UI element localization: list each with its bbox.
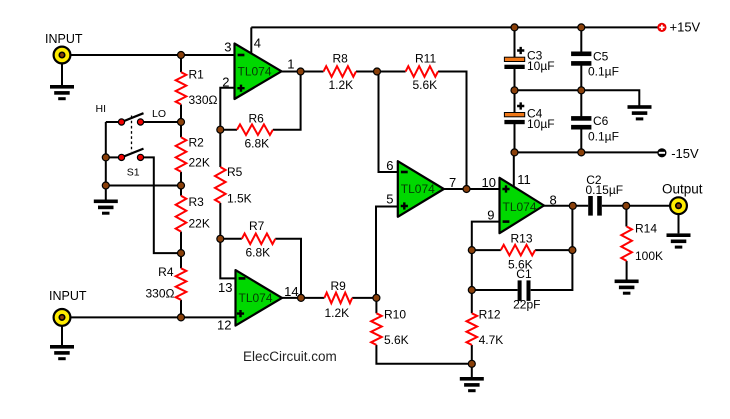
svg-text:TL074: TL074	[239, 291, 273, 305]
node pin14	[298, 294, 305, 301]
node R2/R3/switch	[178, 182, 185, 189]
wire pin4 stub	[250, 27, 252, 53]
capacitor C3 electrolytic	[504, 57, 524, 61]
capacitor C2	[588, 196, 593, 216]
svg-text:5.6K: 5.6K	[384, 333, 409, 347]
input connector 1	[54, 47, 71, 64]
resistor R8	[324, 66, 357, 77]
svg-text:R1: R1	[189, 68, 205, 82]
svg-text:6.8K: 6.8K	[245, 137, 270, 151]
svg-text:22K: 22K	[189, 155, 210, 169]
output connector	[670, 197, 687, 214]
resistor R2	[176, 137, 187, 172]
wire R8 to R11	[356, 71, 406, 73]
wire output connector to ground	[678, 206, 680, 234]
node C2/R14	[623, 202, 630, 209]
wire -15V rail	[515, 151, 659, 153]
wire pole2 contact down to R3R4 node	[143, 157, 181, 253]
resistor R4	[176, 268, 187, 300]
U3 plus	[237, 310, 244, 317]
op-amp U3 TL074 pins 12,13,14	[236, 270, 283, 326]
wire top input to pin 3	[62, 54, 235, 56]
svg-text:R3: R3	[189, 195, 205, 209]
svg-text:C6: C6	[593, 114, 609, 128]
switch S1 gang link (dashed)	[131, 116, 133, 153]
wire pin13 lead	[220, 239, 235, 279]
node R10/R12 ground	[468, 360, 475, 367]
svg-text:R11: R11	[415, 52, 436, 66]
svg-text:C1: C1	[516, 267, 532, 281]
node mid rail / C5 C6	[578, 87, 585, 94]
U4 plus	[502, 185, 509, 192]
node R4/input2	[178, 314, 185, 321]
C3 plus sign	[517, 47, 524, 54]
wire pin11 stub	[513, 152, 515, 189]
node switch pole2	[102, 154, 109, 161]
wire R9 to node R10	[352, 297, 376, 299]
capacitor C1	[518, 280, 522, 301]
resistor R13	[501, 245, 535, 256]
svg-text:11: 11	[517, 172, 531, 187]
svg-text:0.15µF: 0.15µF	[586, 183, 624, 197]
svg-text:10µF: 10µF	[527, 117, 555, 131]
svg-text:1: 1	[287, 57, 294, 72]
wire R12 bottom lead	[471, 345, 473, 364]
svg-text:ElecCircuit.com: ElecCircuit.com	[243, 349, 337, 364]
svg-text:R14: R14	[635, 222, 657, 236]
wire C1 right up to node 8	[531, 206, 573, 290]
switch S1 pole 2 lever	[122, 149, 144, 158]
svg-text:R9: R9	[331, 279, 347, 293]
resistor R10	[371, 313, 382, 345]
capacitor C4 electrolytic	[504, 113, 524, 117]
svg-text:R13: R13	[511, 232, 533, 246]
svg-text:R10: R10	[384, 308, 406, 322]
ground R10 R12	[460, 377, 484, 392]
switch S1 pole 1 contact right (LO)	[137, 119, 143, 125]
wire R13 row right	[535, 249, 572, 251]
svg-text:13: 13	[218, 280, 232, 295]
ground R14	[615, 280, 639, 295]
wire mid rail to ground	[515, 90, 640, 105]
wire pin7 to pin10	[444, 188, 500, 190]
U2 plus	[401, 202, 408, 209]
input connector 2	[54, 309, 71, 326]
node +15V rail / C3	[511, 24, 518, 31]
wire pin14 to R9	[281, 297, 324, 299]
resistor R7	[242, 234, 275, 245]
resistor R1	[176, 72, 187, 104]
node pin2/R5/R6	[217, 126, 224, 133]
resistor R12	[467, 313, 478, 345]
node R9/R10/pin5	[373, 294, 380, 301]
resistor R9	[324, 293, 352, 304]
ground input1	[50, 85, 74, 100]
wire switch pole column	[105, 122, 107, 200]
svg-text:4: 4	[254, 35, 261, 50]
svg-text:6: 6	[386, 158, 393, 173]
resistor R5	[215, 167, 226, 203]
svg-text:14: 14	[284, 284, 298, 299]
node R13/C1 right	[569, 247, 576, 254]
-15V terminal	[657, 148, 666, 157]
svg-text:R6: R6	[249, 112, 265, 126]
node R8/R11/pin6	[374, 68, 381, 75]
capacitor C6	[571, 116, 591, 121]
svg-text:1.2K: 1.2K	[329, 78, 354, 92]
wire C2 to output	[602, 205, 679, 207]
wire C5 C6 column	[580, 27, 582, 52]
svg-text:R2: R2	[189, 136, 205, 150]
wire R6 to node 1	[273, 72, 301, 130]
resistor R14	[621, 227, 632, 261]
svg-text:5.6K: 5.6K	[413, 78, 438, 92]
op-amp U2 TL074 pins 5,6,7	[398, 161, 444, 217]
wire switch junction to R2R3 node	[106, 185, 181, 187]
U1 plus	[237, 85, 244, 92]
+15V terminal	[657, 23, 666, 32]
svg-text:LO: LO	[152, 108, 166, 120]
svg-text:3: 3	[224, 40, 231, 55]
wire R10 leads	[375, 298, 377, 313]
svg-text:INPUT: INPUT	[49, 289, 87, 303]
wire R3-R4 leads	[180, 232, 182, 269]
svg-text:5: 5	[386, 191, 393, 206]
node pin7/pin10	[463, 186, 470, 193]
ground power rail	[628, 105, 652, 120]
node pin1	[297, 68, 304, 75]
svg-text:0.1µF: 0.1µF	[588, 130, 619, 144]
wire R11 to corner and down to node 7	[438, 72, 467, 190]
node R12/C1	[468, 287, 475, 294]
wire pin1 output row	[281, 71, 324, 73]
node -15V rail / C4 / pin11	[511, 149, 518, 156]
svg-text:HI: HI	[96, 103, 107, 115]
ground output	[667, 233, 691, 248]
U4 minus	[503, 220, 510, 223]
wire +15V rail	[251, 26, 658, 28]
svg-text:TL074: TL074	[238, 65, 272, 79]
svg-text:C5: C5	[593, 49, 609, 63]
svg-text:INPUT: INPUT	[45, 32, 83, 46]
svg-text:1.2K: 1.2K	[325, 306, 350, 320]
wire R4 bottom lead	[180, 300, 182, 318]
svg-text:330Ω: 330Ω	[189, 93, 218, 107]
wire R7 row	[220, 238, 242, 240]
wire C1 row left	[472, 289, 518, 291]
wire LO contact to R1R2 node	[143, 121, 181, 123]
wire switch pole1 stub	[106, 121, 119, 123]
svg-text:100K: 100K	[635, 249, 663, 263]
wire R7 to node 14	[275, 239, 301, 298]
U1 minus	[238, 54, 245, 57]
svg-text:22K: 22K	[189, 217, 210, 231]
wire C3 C4 column	[514, 27, 516, 58]
svg-text:0.1µF: 0.1µF	[588, 65, 619, 79]
wire switch pole2 stub	[106, 156, 119, 158]
svg-text:12: 12	[217, 317, 231, 332]
wire input1 to ground	[61, 55, 63, 85]
node R5/R7/pin13	[217, 235, 224, 242]
resistor R3	[176, 196, 187, 232]
resistor R11	[406, 66, 438, 77]
svg-text:1.5K: 1.5K	[227, 191, 252, 205]
svg-text:Output: Output	[662, 181, 703, 196]
resistor R6	[237, 124, 273, 135]
svg-text:330Ω: 330Ω	[146, 286, 175, 300]
wire pin8 to C2	[544, 205, 589, 207]
node +15V rail / C5	[578, 24, 585, 31]
node pin9/R13	[468, 247, 475, 254]
svg-text:R4: R4	[158, 265, 174, 279]
svg-text:R8: R8	[333, 52, 349, 66]
wire pin9 lead and left feedback column	[472, 222, 500, 314]
ground switch S1	[94, 200, 118, 215]
svg-text:4.7K: 4.7K	[479, 333, 504, 347]
node pin8/C2	[569, 202, 576, 209]
svg-text:6.8K: 6.8K	[246, 246, 271, 260]
node -15V rail / C6	[578, 149, 585, 156]
wire left divider column top (R1 leads)	[180, 55, 182, 72]
switch S1 pole 1 contact left	[122, 113, 144, 122]
svg-text:TL074: TL074	[503, 200, 537, 214]
svg-text:TL074: TL074	[401, 182, 435, 196]
wire bottom input to pin 12	[62, 316, 236, 318]
svg-text:-15V: -15V	[671, 146, 699, 161]
wire R14 leads	[625, 206, 627, 227]
node R3/R4	[178, 250, 185, 257]
svg-text:8: 8	[550, 192, 557, 207]
op-amp U1 TL074 pins 1,2,3,4	[235, 44, 282, 100]
node input1/R1	[178, 52, 185, 59]
node R1/R2/LO	[178, 119, 185, 126]
switch S1 pole 2 contact right	[137, 154, 143, 160]
C4 plus sign	[517, 102, 524, 109]
wire R13 row left	[472, 249, 501, 251]
svg-text:2: 2	[222, 74, 229, 89]
wire R2-R3 leads	[180, 172, 182, 196]
node mid rail / C3 C4	[511, 87, 518, 94]
wire input2 to ground	[61, 317, 63, 345]
U2 minus	[401, 171, 408, 174]
svg-text:S1: S1	[127, 167, 140, 179]
svg-text:+15V: +15V	[670, 20, 701, 35]
op-amp U4 TL074 pins 8,9,10,11	[500, 178, 545, 233]
svg-text:10µF: 10µF	[527, 59, 555, 73]
svg-text:R7: R7	[249, 219, 265, 233]
svg-text:R12: R12	[479, 308, 501, 322]
capacitor C5	[571, 52, 591, 57]
wire pin2 lead	[220, 88, 235, 130]
wire R5 leads	[219, 130, 221, 167]
svg-text:7: 7	[449, 175, 456, 190]
svg-text:R5: R5	[227, 165, 243, 179]
wire pin5 down to node R9R10	[376, 207, 398, 298]
wire R6 row	[220, 129, 237, 131]
svg-text:22pF: 22pF	[513, 297, 540, 311]
ground input2	[50, 345, 74, 360]
wire mid ground stub	[471, 364, 473, 377]
U3 minus	[239, 277, 246, 280]
svg-text:10: 10	[482, 175, 496, 190]
wire node R8R11 down to pin 6	[379, 72, 399, 173]
svg-text:9: 9	[487, 208, 494, 223]
node switch ground	[102, 182, 109, 189]
